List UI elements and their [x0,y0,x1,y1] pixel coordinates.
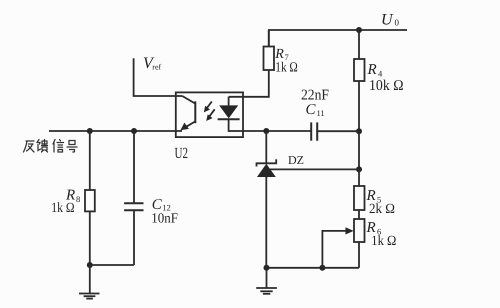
wire Vref drop [134,58,183,96]
ground left bars [79,294,100,299]
node zener junction [263,128,269,134]
svg-text:ref: ref [152,63,161,72]
LED cathode bar [218,118,240,120]
wire C12 top lead [133,131,135,203]
char kui [37,140,48,153]
node ground-right junction [264,265,270,271]
svg-text:0: 0 [395,18,400,28]
ground right stem [266,268,268,288]
wire zener row [270,168,359,170]
capacitor C11 right plate [316,122,318,140]
wire LED cathode to main [229,119,311,131]
svg-text:4: 4 [378,69,383,79]
light arrow 2 [209,109,215,117]
svg-text:1k Ω: 1k Ω [275,61,298,76]
LED anode lead [228,97,230,106]
resistor R4 body [354,59,365,81]
ground left stem [89,265,91,294]
capacitor C12 bottom plate [124,209,143,211]
wire feedback input [49,130,182,132]
node main-right junction [356,128,362,134]
wire R7 bottom lead [229,70,269,97]
char xin [53,140,64,153]
wire bottom-left rail [90,264,134,266]
zener DZ cathode bar [257,159,277,166]
zener DZ triangle [257,164,276,177]
wire R6 bottom lead [358,242,360,268]
svg-text:2k Ω: 2k Ω [369,202,395,217]
wire bottom-right rail [267,267,360,269]
wire R5-R6 link [358,210,360,219]
svg-text:U2: U2 [175,145,189,162]
phototransistor collector [182,96,195,104]
LED triangle [219,105,238,118]
wire R5 top lead [358,169,360,186]
resistor R8 body [85,190,95,211]
wire right column mid [358,131,360,169]
node output junction [356,27,362,33]
pot wiper arrowhead [346,227,354,234]
capacitor C11 left plate [310,122,312,140]
svg-text:10k Ω: 10k Ω [369,78,404,94]
svg-text:R: R [274,47,284,62]
node C12 junction [131,128,137,134]
svg-text:11: 11 [317,108,325,118]
optocoupler U2 box [176,92,243,137]
resistor R5 body [354,186,365,210]
char hao [67,141,77,153]
node ground-left junction [87,262,93,268]
capacitor C12 top plate [124,202,143,204]
resistor R7 body [264,47,275,71]
wire R4 top lead [358,30,360,59]
light arrow 1 [206,102,212,109]
wire top output rail [269,30,407,47]
wire R4 bottom lead [358,81,360,131]
wire C11 right to column [317,130,359,132]
node R8 junction [87,128,93,134]
char fan [24,141,35,152]
phototransistor emitter arrowhead [180,123,189,131]
wire R8 top lead [89,131,91,190]
wire R8 bottom lead [89,211,91,265]
svg-text:R: R [367,62,377,78]
wire zener bottom lead [265,177,267,268]
svg-text:DZ: DZ [288,153,304,167]
phototransistor base bar [194,101,196,123]
wire C12 bottom lead [133,210,135,265]
node zener-row junction [356,166,362,172]
svg-text:U: U [381,11,394,28]
node wiper-bottom junction [319,265,325,271]
resistor R6 body (pot) [354,219,365,242]
phototransistor emitter [186,121,196,127]
svg-text:10nF: 10nF [151,211,178,226]
svg-text:1k Ω: 1k Ω [51,201,74,216]
svg-text:8: 8 [76,194,80,204]
label feedback-signal (Chinese, hand-drawn strokes) [24,140,78,153]
wire pot wiper [322,231,348,268]
ground right bars [256,288,277,294]
resistor R7 top lead [268,30,270,47]
svg-text:C: C [306,102,317,118]
svg-text:1k Ω: 1k Ω [371,234,396,249]
wire zener top lead [265,131,267,163]
